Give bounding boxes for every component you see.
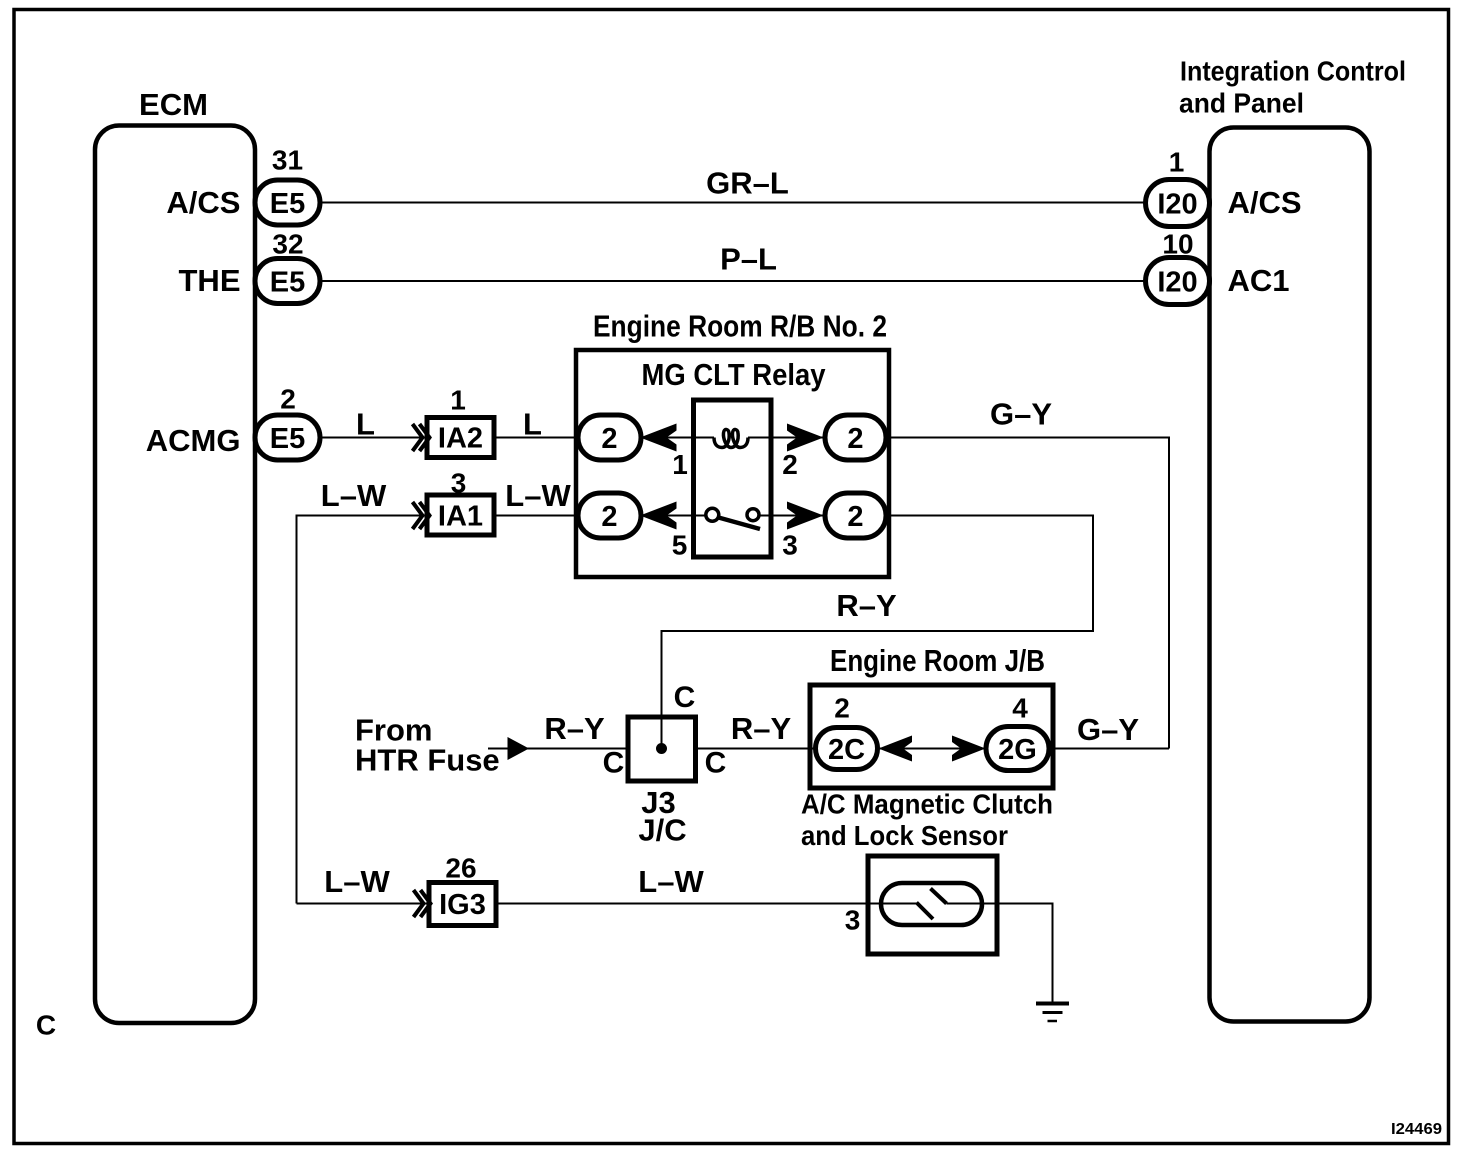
svg-text:2: 2 [601,501,617,533]
svg-text:C: C [674,681,696,714]
J/B oval 2C [816,728,878,770]
arrow right J/B [952,736,986,762]
wire clutch to ground [947,904,1053,1003]
svg-text:2: 2 [847,501,863,533]
svg-text:32: 32 [272,229,303,260]
svg-text:C: C [36,1010,56,1041]
arrow left J/B [879,736,913,762]
J3 junction connector box [628,717,696,781]
svg-text:Integration Control: Integration Control [1180,56,1406,87]
svg-text:L–W: L–W [505,478,571,513]
svg-text:A/C Magnetic Clutch: A/C Magnetic Clutch [801,789,1053,820]
connector oval I20 pin10 [1146,258,1210,305]
relay switch contact circles [706,508,719,521]
connector oval E5 pin32 [255,259,320,304]
svg-text:G–Y: G–Y [990,397,1052,432]
clutch stadium symbol [881,883,982,925]
svg-text:2: 2 [847,423,863,455]
svg-text:E5: E5 [270,423,305,455]
connector IA1 [427,495,494,535]
svg-text:and Lock Sensor: and Lock Sensor [801,820,1008,851]
svg-text:I20: I20 [1157,189,1197,221]
svg-text:HTR Fuse: HTR Fuse [355,743,500,778]
J3 junction dot [656,743,667,754]
svg-text:P–L: P–L [720,242,777,277]
connector IG3 [429,883,496,926]
svg-text:GR–L: GR–L [706,166,789,201]
svg-text:10: 10 [1162,229,1193,260]
svg-text:2C: 2C [828,734,865,766]
svg-text:3: 3 [451,468,467,499]
svg-text:A/CS: A/CS [166,185,240,220]
svg-text:1: 1 [672,449,688,480]
svg-text:Engine Room R/B No. 2: Engine Room R/B No. 2 [593,309,887,344]
wire relay switch left [640,515,706,517]
HTR fuse arrow [508,737,530,760]
svg-text:G–Y: G–Y [1077,712,1139,747]
svg-text:5: 5 [672,530,688,561]
wire relay switch right [759,515,824,517]
svg-text:I24469: I24469 [1391,1121,1442,1138]
svg-text:THE: THE [179,263,241,298]
wire R-Y loop to J3 [662,516,1094,749]
svg-text:3: 3 [782,530,798,561]
svg-text:2G: 2G [998,734,1037,766]
svg-text:1: 1 [450,385,466,416]
connector oval E5 pin31 [255,180,320,225]
relay oval 2 bottom-left [578,493,641,538]
svg-text:26: 26 [445,853,476,884]
svg-text:A/CS: A/CS [1228,185,1302,220]
svg-text:C: C [705,747,727,780]
svg-text:IA2: IA2 [438,423,483,455]
svg-text:E5: E5 [270,188,305,220]
relay coil [714,429,748,447]
J/B oval 2G [986,727,1049,771]
svg-text:E5: E5 [270,267,305,299]
wire relay coil row [640,437,714,439]
arrow left relay row2 [640,502,677,530]
clutch slash upper [931,889,947,904]
svg-text:L: L [356,407,375,442]
svg-text:J/C: J/C [638,813,686,848]
svg-text:2: 2 [834,693,850,724]
arrow right relay row1 [787,424,824,452]
wire coil to right oval [748,437,824,439]
wire G-Y from relay to panel side [886,438,1169,749]
svg-text:R–Y: R–Y [544,711,605,746]
svg-text:31: 31 [272,145,303,176]
svg-text:AC1: AC1 [1228,263,1290,298]
wire J3 to J/B to G-Y corner [696,748,1170,750]
svg-text:2: 2 [601,423,617,455]
svg-text:3: 3 [845,905,861,936]
svg-text:4: 4 [1012,693,1028,724]
arrow left relay row1 [640,424,677,452]
svg-text:1: 1 [1169,147,1185,178]
svg-text:L–W: L–W [321,478,387,513]
arrow right relay row2 [787,502,824,530]
svg-text:L–W: L–W [638,864,704,899]
svg-text:MG CLT Relay: MG CLT Relay [642,357,827,392]
wire P-L [320,280,1146,282]
relay oval 2 bottom-right [825,493,886,538]
svg-text:Engine Room J/B: Engine Room J/B [830,643,1045,678]
svg-text:IA1: IA1 [438,501,483,533]
Engine Room R/B No. 2 box [576,350,889,577]
svg-text:R–Y: R–Y [836,588,897,623]
chevron pair row L-W [413,502,430,529]
svg-text:ECM: ECM [139,87,208,122]
svg-text:I20: I20 [1157,267,1197,299]
A/C magnetic clutch sensor box [868,856,997,954]
svg-text:ACMG: ACMG [146,423,241,458]
connector oval I20 pin1 [1146,180,1210,227]
ECM box [95,126,255,1024]
clutch slash lower [917,903,934,920]
wire L-W vertical branch [297,516,579,904]
ground symbol [1036,1004,1069,1022]
connector oval E5 pin2 [255,415,320,460]
Engine Room J/B box [810,685,1053,788]
svg-text:2: 2 [782,449,798,480]
relay switch blade [719,518,761,530]
chevron pair row L [413,424,430,451]
svg-text:IG3: IG3 [439,889,486,921]
wire L-W to clutch [297,903,917,905]
MG CLT relay inner box [694,400,772,557]
wire GR-L [320,202,1146,204]
svg-text:L: L [523,407,542,442]
wire L from ACMG to relay [320,437,578,439]
svg-text:C: C [603,747,625,780]
svg-text:and Panel: and Panel [1179,88,1304,119]
svg-text:L–W: L–W [324,864,390,899]
relay oval 2 top-left [578,415,641,460]
svg-text:2: 2 [280,384,296,415]
wire from HTR fuse [488,748,628,750]
relay oval 2 top-right [825,415,886,460]
chevron pair row IG3 [414,890,431,917]
svg-text:R–Y: R–Y [731,711,792,746]
Integration Control and Panel box [1210,128,1370,1022]
connector IA2 [427,418,494,458]
